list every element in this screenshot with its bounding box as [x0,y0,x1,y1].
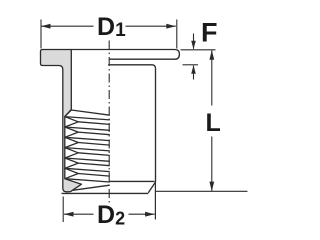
D1 extension line left [40,20,42,49]
centerline (dash-dot) [108,41,110,206]
L dimension line upper [211,51,213,106]
bottom edge [62,192,149,194]
bore bottom chamfer line [73,185,110,190]
D2 extension line left [62,197,64,223]
svg-text:L: L [206,109,221,137]
L dimension line lower [211,137,213,191]
svg-text:D1: D1 [97,13,126,41]
L arrow up [209,50,214,60]
thread crest lines across bore [65,110,110,182]
D1 arrow left [41,24,51,29]
D2 dimension line [64,213,155,215]
L arrow down [209,182,214,192]
F top extension line [181,49,216,51]
chamfer ring line (right half) [109,180,154,182]
body right edge [155,68,157,182]
D2 extension line right [154,182,156,220]
D2 arrow right [145,212,155,217]
F up arrow [193,66,195,80]
D2 arrow left [64,212,74,217]
flange underside at body (right half) [108,65,155,68]
F bottom extension line [183,64,199,66]
D1 dimension line [41,25,176,27]
chamfer slant bottom right [148,182,155,193]
flange top edge (full width) [71,50,179,60]
svg-text:D2: D2 [97,201,125,229]
D1 extension line right [176,20,178,49]
F down arrow [193,34,195,49]
svg-text:F: F [201,18,218,48]
D1 arrow right [166,24,176,29]
sectioned left wall (gray cut material) [41,50,82,192]
thread teeth zigzag [65,110,79,179]
L bottom extension line [156,190,248,192]
